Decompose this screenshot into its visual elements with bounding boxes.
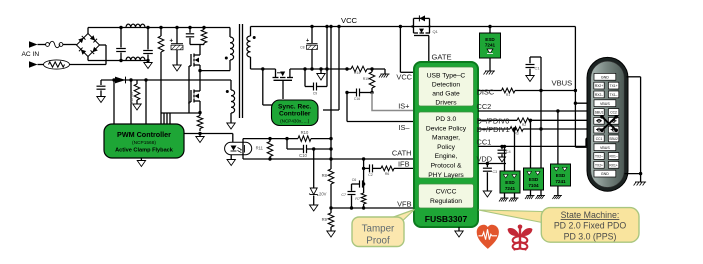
grounds below ESD1 (504, 193, 506, 198)
wire SR VCC (338, 27, 340, 111)
wire pin VCC to PWM controller (130, 80, 132, 124)
resistor R_vcc (136, 80, 138, 84)
svg-text:20V: 20V (319, 192, 327, 197)
wire bridge- to bottom rail (87, 57, 89, 61)
inductor L1 common-mode choke bottom (126, 57, 145, 60)
wire GATE to FUSB3307 (428, 36, 430, 63)
wire IS+ to FUSB3307 (372, 93, 414, 111)
transformer T1 aux winding (230, 80, 232, 90)
svg-text:CC1: CC1 (477, 138, 492, 147)
svg-text:IFB: IFB (398, 160, 410, 169)
ESD protection D4 ESD7241 right (551, 164, 571, 186)
ground below FUSB3307 (458, 227, 460, 231)
svg-text:Policy: Policy (437, 144, 455, 151)
transformer T1 secondary winding (250, 27, 252, 37)
USB Type-C receptacle J1 (587, 57, 628, 191)
varistor MOV (44, 60, 70, 69)
wire IS- to FUSB3307 (346, 93, 348, 122)
svg-text:DISC: DISC (477, 88, 495, 97)
capacitor C16 (347, 92, 357, 94)
svg-text:IS–: IS– (398, 123, 410, 132)
resistor R8 (328, 169, 334, 184)
icon heart ECG (477, 225, 499, 249)
ground on secondary return (320, 69, 322, 74)
capacitor C_vcc (100, 80, 102, 85)
svg-text:(NCP430x, ...): (NCP430x, ...) (280, 119, 310, 124)
transistor Q_main (199, 71, 201, 91)
wire Q_clamp gate (188, 66, 190, 113)
wire bridge+ to top rail (87, 28, 89, 34)
svg-text:Tamper: Tamper (362, 224, 395, 235)
svg-text:CV/CC: CV/CC (436, 189, 457, 196)
resistor R_start (160, 28, 162, 37)
capacitor X2 (147, 28, 149, 50)
svg-text:C6: C6 (352, 178, 357, 182)
svg-text:RX1+: RX1+ (609, 163, 617, 167)
resistor R10 (298, 136, 311, 142)
node primary phase dot (225, 57, 228, 60)
ground below R_vcc (133, 104, 141, 110)
ESD protection D3 ESD7104 (524, 168, 544, 190)
ground opto LED cathode (230, 155, 232, 160)
connector D pin glyphs (598, 119, 601, 122)
capacitor X1 (120, 28, 122, 48)
capacitor C9 (304, 69, 306, 87)
node switch (198, 69, 201, 72)
node shunt left (345, 67, 348, 70)
capacitor C4 on CC1 (500, 145, 503, 148)
wire D+ to ESD1 (514, 129, 516, 171)
svg-text:Sync. Rec.: Sync. Rec. (278, 104, 312, 111)
wire CS to controller (184, 133, 233, 135)
inductor L1 common-mode choke top (126, 24, 145, 27)
resistor R15 (371, 69, 373, 72)
resistor R7 (361, 193, 366, 204)
svg-text:RX2+: RX2+ (595, 84, 603, 88)
wire CC1 to connector (478, 145, 586, 147)
ground below R9 (327, 231, 335, 237)
wire D- to ESD2 (530, 120, 532, 168)
wire CC2 to ESD3 (557, 111, 559, 164)
svg-text:VFB: VFB (397, 200, 411, 209)
wire VBUS to connector pins (575, 102, 594, 104)
resistor R14 shunt (351, 66, 367, 72)
wire connector GND right (627, 76, 641, 78)
svg-text:R8: R8 (322, 173, 328, 178)
transformer T1 core (239, 24, 241, 118)
node VFB joins (350, 206, 353, 209)
svg-text:Detection: Detection (432, 82, 461, 89)
svg-text:ESD: ESD (556, 173, 566, 178)
svg-text:Engine,: Engine, (435, 153, 458, 160)
ESD protection D2 ESD7241 (500, 171, 520, 193)
wire top rail primary (88, 27, 230, 29)
icon caduceus (508, 225, 533, 251)
svg-text:C7: C7 (341, 193, 346, 197)
svg-text:R2: R2 (522, 123, 526, 127)
ground below PWM controller (140, 158, 142, 161)
capacitor C7 (351, 184, 353, 191)
wire fuse to bridge (63, 44, 77, 46)
ground below C3 (483, 191, 491, 197)
svg-text:GND: GND (601, 172, 609, 176)
svg-text:C3: C3 (493, 170, 498, 174)
svg-text:C9: C9 (313, 92, 317, 96)
grounds below ESD2 (530, 190, 532, 196)
svg-text:GND: GND (601, 75, 609, 79)
wire MOV to bridge right corner (70, 64, 107, 66)
wire VCC pin to rail (399, 27, 401, 73)
node zener tap (312, 147, 315, 150)
node secondary phase dot (253, 36, 256, 39)
svg-text:Drivers: Drivers (435, 100, 457, 107)
capacitor C6 (352, 183, 360, 185)
svg-text:AC IN: AC IN (22, 51, 40, 58)
svg-text:R10: R10 (301, 130, 309, 135)
ground below ESD3 (557, 186, 559, 196)
wire Q_sr gate to controller (282, 80, 284, 99)
svg-text:TX2+: TX2+ (595, 163, 603, 167)
svg-text:R7: R7 (355, 197, 360, 201)
bridge rectifier BR1 (77, 34, 100, 57)
wire opto collector (243, 138, 298, 140)
wire pin HV to PWM controller (113, 80, 115, 124)
wire CC2 to connector (478, 110, 594, 112)
wire output cap branch (326, 27, 328, 87)
svg-text:VDD: VDD (477, 155, 493, 164)
svg-text:Active Clamp Flyback: Active Clamp Flyback (115, 148, 174, 154)
ground connector shield (635, 181, 646, 183)
node shunt right (370, 67, 373, 70)
FUSB3307 block: USB Type-C Detection and Gate Drivers (419, 67, 474, 106)
svg-text:State Machine:: State Machine: (561, 210, 620, 220)
ground below C_bulk (173, 65, 181, 71)
resistor R9 (330, 208, 332, 213)
svg-text:R6: R6 (385, 172, 390, 176)
svg-text:PHY Layers: PHY Layers (428, 172, 464, 179)
svg-text:PD 2.0 Fixed PDO: PD 2.0 Fixed PDO (554, 221, 627, 231)
transistor Q_clamp (199, 50, 201, 55)
svg-text:SBU1: SBU1 (595, 111, 604, 115)
callout Tamper Proof (388, 210, 415, 226)
wire CATH to FUSB3307 (243, 158, 414, 160)
svg-text:R1: R1 (506, 93, 510, 97)
svg-text:R15: R15 (363, 77, 369, 81)
ground below aux winding (227, 123, 235, 129)
optocoupler U3 (225, 142, 252, 154)
resistor R6 (373, 167, 381, 169)
svg-text:Regulation: Regulation (430, 198, 462, 205)
PWM controller U1 NCP1568 (104, 124, 184, 158)
svg-text:VBUS: VBUS (600, 102, 610, 106)
capacitor C8 output electrolytic (311, 27, 313, 44)
ground below C_vcc (97, 97, 105, 103)
capacitor C10 (286, 139, 288, 149)
capacitor C_snub (189, 28, 191, 33)
wire snubber node (190, 44, 204, 46)
callout State Machine (479, 210, 543, 223)
svg-text:CC2: CC2 (477, 102, 492, 111)
svg-text:SBU2: SBU2 (609, 137, 618, 141)
diode D_vcc (115, 77, 126, 84)
svg-text:Q1: Q1 (433, 29, 439, 34)
wire bottom rail primary (88, 60, 148, 62)
wire VFB to FUSB3307 (331, 207, 414, 209)
ground below C1 (526, 76, 534, 82)
ground after shunt (372, 68, 385, 70)
svg-text:7241: 7241 (505, 186, 516, 191)
node CS (198, 111, 201, 114)
wire to ESD7241 top (489, 27, 491, 34)
svg-text:RX1–: RX1– (609, 155, 617, 159)
resistor R1 (502, 88, 515, 93)
ground below R_cs (199, 134, 201, 137)
ESD protection D1 ESD7241 top (480, 33, 501, 58)
wire pin2 to PWM controller (145, 80, 147, 124)
node VFB tap (329, 206, 332, 209)
svg-text:PWM Controller: PWM Controller (117, 130, 171, 139)
transistor Q_sr synchronous rectifier (275, 69, 277, 78)
svg-text:Proof: Proof (366, 236, 390, 247)
capacitor C3 on VDD (486, 162, 489, 165)
svg-text:Device Policy: Device Policy (426, 125, 467, 132)
capacitor C1 (540, 57, 542, 91)
svg-text:FUSB3307: FUSB3307 (425, 214, 468, 224)
wire opto transistor legs (242, 139, 244, 159)
svg-text:CC1: CC1 (596, 137, 603, 141)
svg-text:7241: 7241 (555, 179, 566, 184)
svg-text:C1: C1 (535, 66, 541, 71)
svg-text:VCC: VCC (341, 16, 358, 25)
resistor R_snub (203, 28, 205, 30)
wire CC1 to ESD1 (504, 146, 506, 171)
capacitor C2 comp (364, 167, 370, 169)
node divider joins (329, 137, 332, 140)
svg-text:C2: C2 (368, 173, 373, 177)
svg-text:R12 1W: R12 1W (130, 91, 134, 104)
wire pin cluster to PWM controller (163, 113, 165, 124)
svg-text:D+/PDIV1: D+/PDIV1 (477, 125, 510, 134)
svg-text:ESD: ESD (505, 180, 515, 185)
svg-text:7241: 7241 (485, 43, 496, 48)
node VCC aux (129, 78, 132, 81)
svg-text:C8: C8 (300, 46, 304, 50)
transformer T1 primary winding (229, 28, 231, 38)
svg-text:ESD: ESD (529, 177, 539, 182)
wire VDD (478, 163, 506, 165)
svg-text:Controller: Controller (279, 111, 311, 118)
svg-text:(NCP1568): (NCP1568) (132, 140, 156, 146)
wire opto LED anode (232, 134, 234, 143)
wire aux rail (101, 79, 231, 81)
svg-text:VBUS: VBUS (552, 79, 573, 88)
svg-text:C16: C16 (354, 97, 360, 101)
ground below X2 (144, 63, 152, 69)
wire VBUS rail right (411, 25, 413, 27)
terminal AC neutral (bottom) (29, 61, 38, 67)
svg-text:TX1–: TX1– (610, 93, 618, 97)
svg-text:C4: C4 (506, 150, 511, 154)
wire SR controller drain sense (262, 69, 264, 105)
svg-text:R9: R9 (322, 217, 328, 222)
wire DISC (478, 90, 502, 92)
svg-text:USB Type–C: USB Type–C (427, 73, 466, 80)
svg-text:VCC: VCC (396, 72, 412, 81)
svg-text:ESD: ESD (485, 37, 495, 42)
ground below zener (310, 205, 318, 211)
svg-text:TX2–: TX2– (595, 155, 603, 159)
terminal AC line (top) (29, 41, 38, 47)
connector crossover arrows (602, 117, 616, 130)
wire D+/PDIV1 (478, 128, 510, 130)
resistor R11 (269, 139, 271, 142)
resistor R2 (517, 118, 531, 123)
svg-text:+: + (306, 38, 309, 44)
svg-text:Manager,: Manager, (432, 135, 460, 142)
node aux phase dot (226, 90, 229, 93)
FUSB3307 block: CV/CC Regulation (419, 184, 474, 208)
svg-text:RX2–: RX2– (595, 93, 603, 97)
FUSB3307 U4 main block (414, 62, 478, 227)
node VBUS (574, 89, 577, 92)
svg-text:IS+: IS+ (398, 101, 409, 110)
ground below ESD7241 top (489, 58, 491, 71)
Sync Rec controller U2 NCP430x (272, 100, 319, 126)
wire D-/PDIV0 (478, 119, 517, 121)
svg-text:7104: 7104 (528, 183, 539, 188)
svg-text:C10: C10 (299, 153, 307, 158)
transistor Q1 load switch (413, 18, 415, 26)
wire VBUS vertical (574, 27, 576, 148)
svg-text:and Gate: and Gate (432, 91, 460, 98)
svg-text:Protocol &: Protocol & (431, 163, 462, 170)
node ESD top branch (488, 25, 491, 28)
wire C1 branch to ESD2 (540, 91, 542, 169)
wire Q_main gate (188, 102, 190, 104)
svg-text:CC2: CC2 (610, 111, 617, 115)
svg-text:VBUS: VBUS (600, 146, 610, 150)
zener D_z 20V (313, 149, 315, 188)
svg-text:PD 3.0: PD 3.0 (436, 116, 457, 123)
svg-text:GATE: GATE (432, 53, 452, 62)
svg-text:R11: R11 (256, 146, 264, 151)
svg-text:CATH: CATH (392, 149, 412, 158)
node SR branch (261, 67, 264, 70)
resistor R3 (510, 127, 523, 132)
svg-text:PD 3.0 (PPS): PD 3.0 (PPS) (564, 231, 617, 241)
wire VBUS divider (330, 27, 332, 170)
svg-text:TX1+: TX1+ (610, 84, 618, 88)
fuse F1 (46, 43, 50, 47)
svg-text:R14: R14 (354, 71, 360, 75)
capacitor C_bulk electrolytic (176, 28, 178, 44)
wire top rail secondary (251, 26, 576, 28)
wire compensation vertical (363, 159, 365, 193)
wire secondary return (251, 68, 276, 70)
FUSB3307 block: PD 3.0 Device Policy Manager (419, 112, 474, 178)
resistor R_cs current sense (199, 113, 201, 116)
